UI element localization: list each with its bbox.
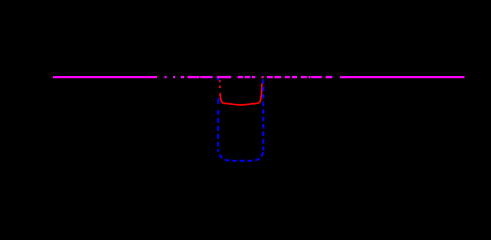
left solid span <box>53 76 157 78</box>
right solid span <box>340 76 465 78</box>
red right-wall top tick at the zero line <box>261 77 263 79</box>
V=0 reference line (magenta, with gaps) <box>53 76 465 78</box>
potential well V2 (blue dashed, deep) : left wall dashes <box>218 78 263 151</box>
blue right wall (uniform dashes) <box>262 79 264 151</box>
potential well V1 (red solid, shallow) : left-wall dashes <box>220 77 262 105</box>
blue rounded bottom (dashed) <box>218 149 263 161</box>
gapped middle spans <box>165 76 167 78</box>
red main curve: left wall lower part, rounded bottom with slight sag, right wall <box>220 83 262 105</box>
